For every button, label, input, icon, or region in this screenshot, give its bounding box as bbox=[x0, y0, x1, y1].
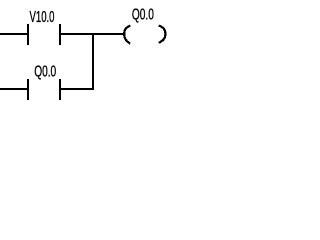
svg-text:V10.0: V10.0 bbox=[30, 9, 55, 26]
contact V10.0 left bar bbox=[27, 24, 29, 45]
wire rung2 to branch bbox=[61, 88, 92, 90]
wire rung1 to coil bbox=[61, 33, 124, 35]
wire rung2 left segment bbox=[0, 88, 27, 90]
wire vertical branch junction bbox=[92, 33, 94, 90]
ladder logic network (LAD) bbox=[0, 0, 204, 142]
contact Q0.0 left bar bbox=[27, 79, 29, 100]
coil Q0.0 right parenthesis bbox=[159, 26, 166, 43]
contact V10.0 right bar bbox=[59, 24, 61, 45]
svg-text:Q0.0: Q0.0 bbox=[132, 6, 154, 23]
contact Q0.0 right bar bbox=[59, 79, 61, 100]
wire rung1 left segment bbox=[0, 33, 27, 35]
coil Q0.0 left parenthesis bbox=[124, 26, 130, 44]
svg-text:Q0.0: Q0.0 bbox=[34, 64, 56, 81]
